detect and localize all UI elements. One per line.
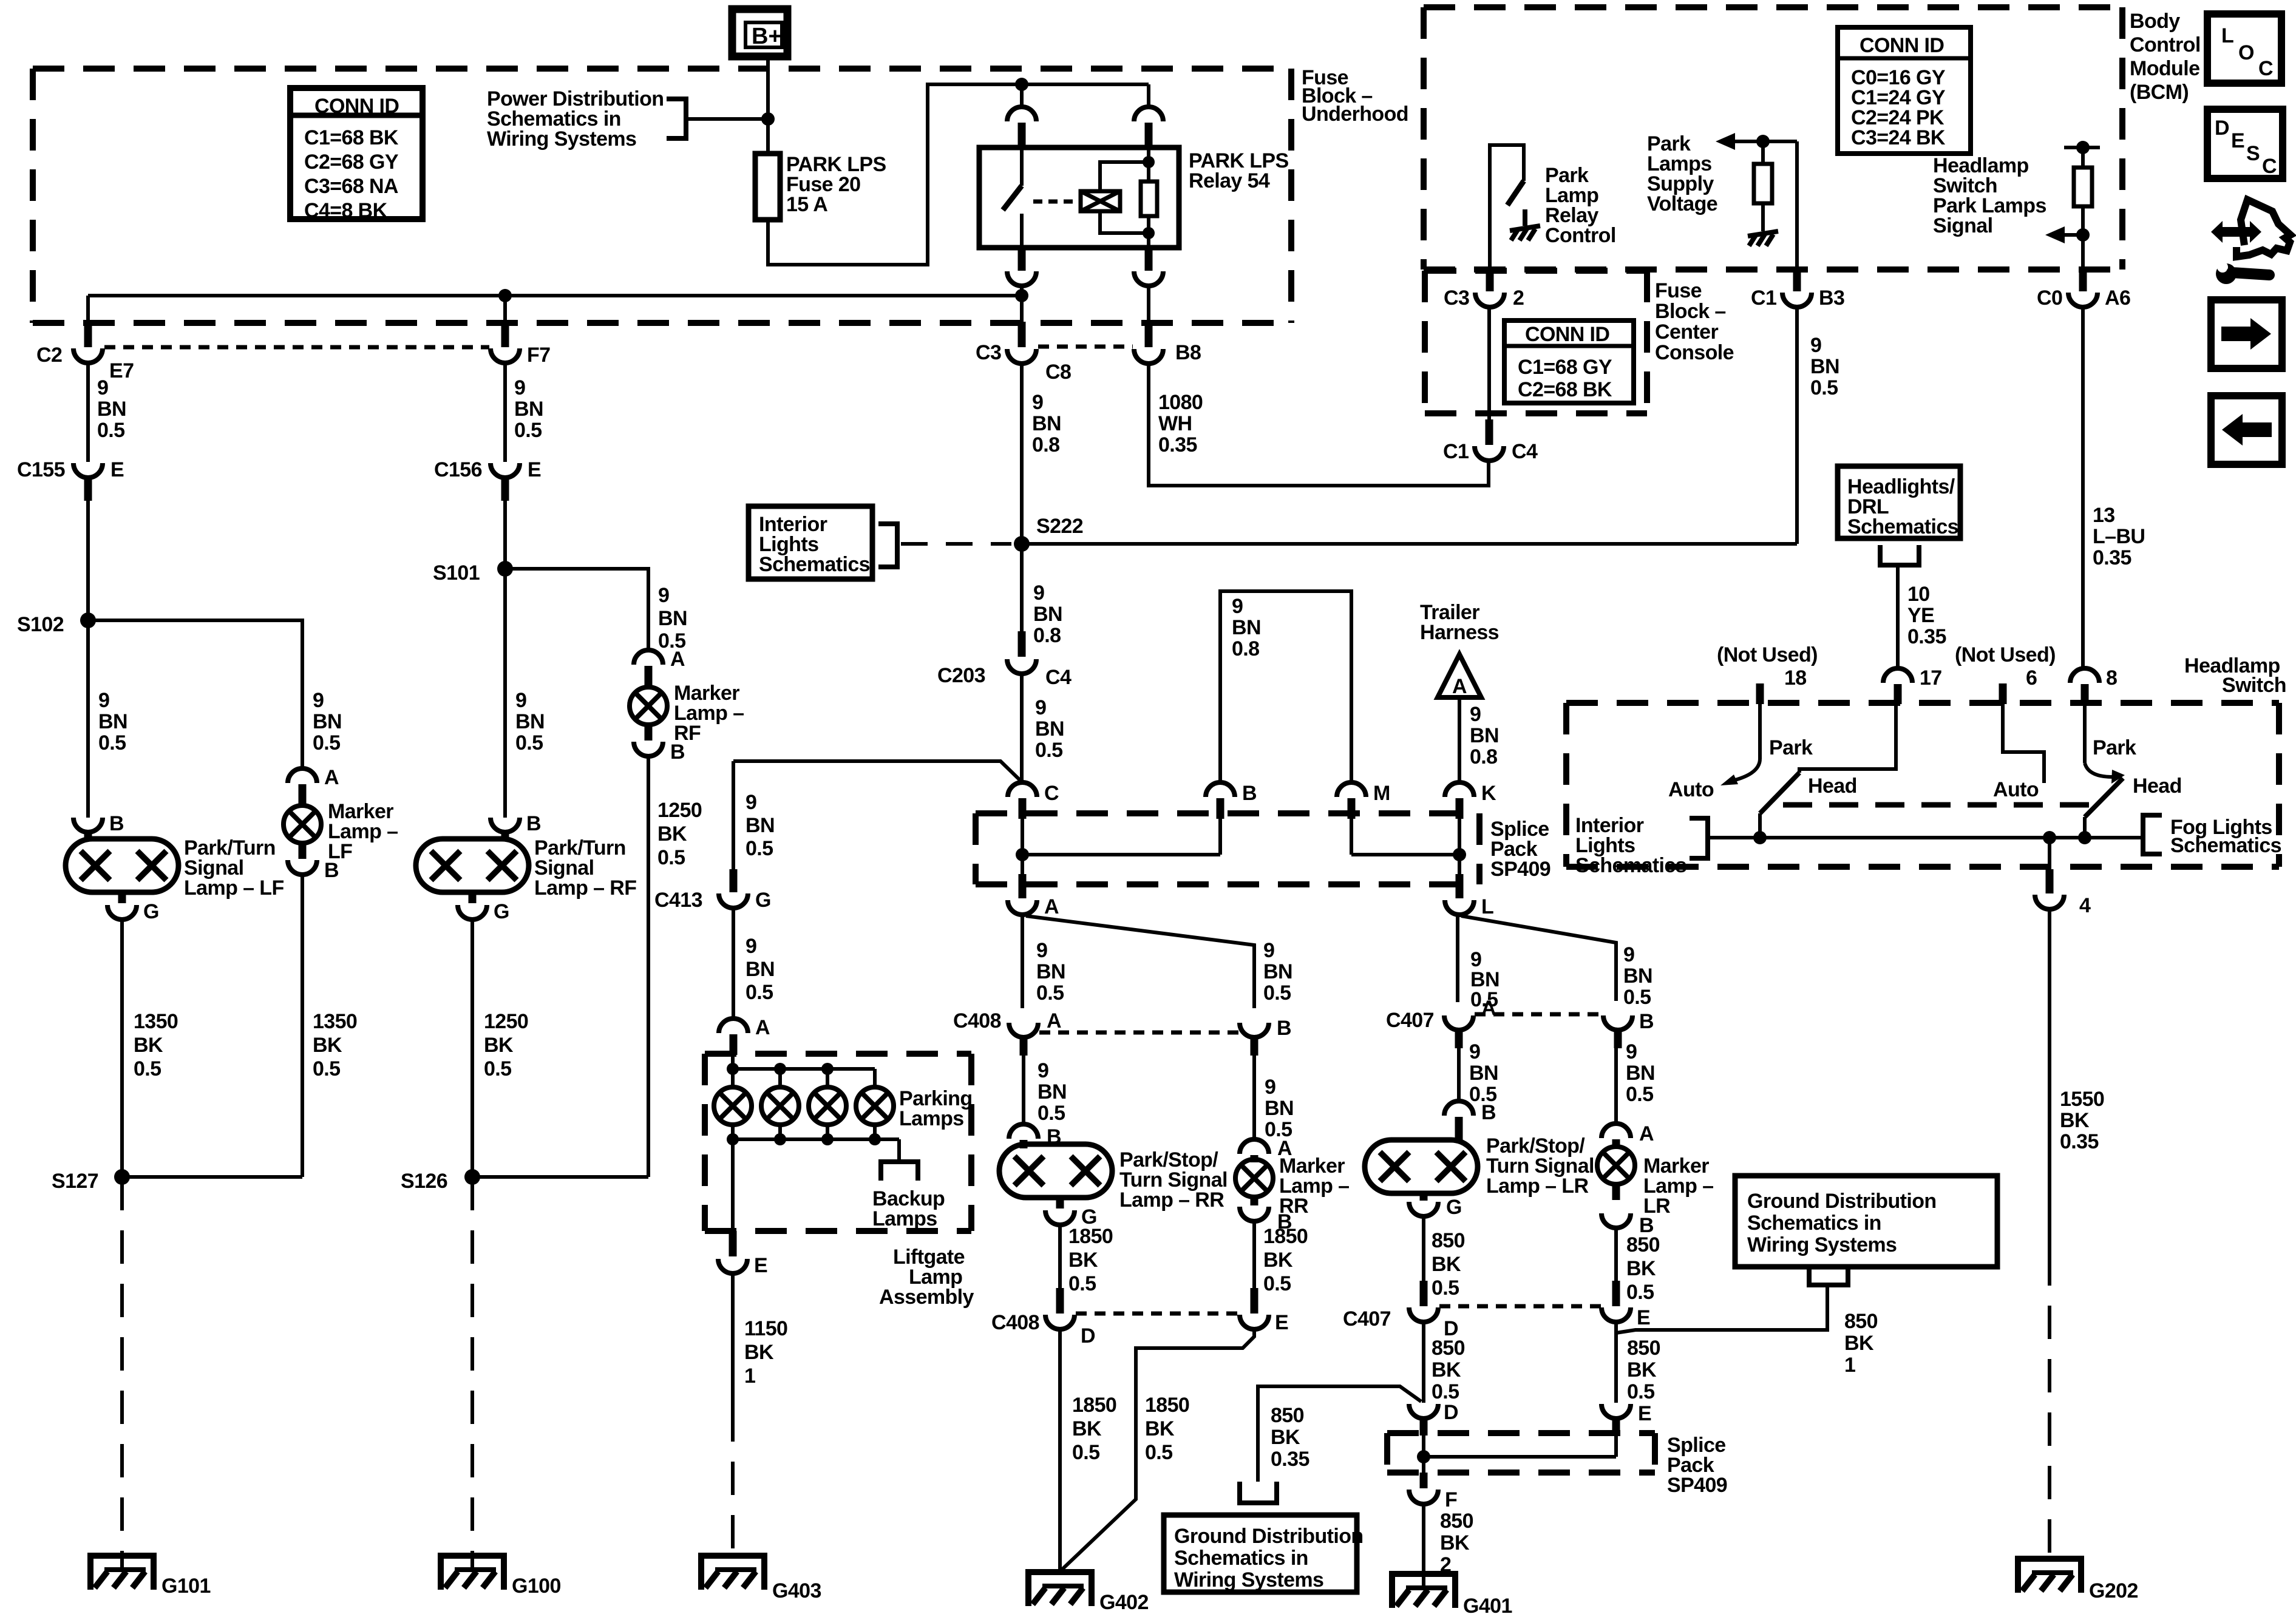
svg-text:C3=24 BK: C3=24 BK xyxy=(1851,126,1946,149)
svg-text:0.5: 0.5 xyxy=(1145,1441,1172,1464)
wire label 9 BN 0.5 (C408B down) xyxy=(1265,1076,1294,1141)
svg-text:BN: BN xyxy=(1232,616,1261,639)
label (Not Used) pin 18 xyxy=(1717,643,1818,666)
svg-text:G100: G100 xyxy=(512,1575,561,1598)
wire 10 YE down to pin 17 xyxy=(1896,585,1900,668)
splice 2 internal bus xyxy=(1424,1436,1616,1473)
wire label 1150 BK 1 xyxy=(744,1317,787,1388)
svg-text:C408: C408 xyxy=(991,1311,1039,1334)
connector B park/turn LF xyxy=(73,812,124,841)
svg-text:0.5: 0.5 xyxy=(1432,1276,1459,1300)
connector C156 pin E xyxy=(434,458,541,501)
svg-text:0.8: 0.8 xyxy=(1032,433,1059,456)
wire S222 to BCM B3 xyxy=(1022,542,1797,546)
svg-text:C3=68 NA: C3=68 NA xyxy=(304,175,398,198)
svg-text:13: 13 xyxy=(2093,504,2115,527)
node splice S127 xyxy=(52,1169,130,1193)
bulb Marker Lamp LF xyxy=(284,805,321,843)
svg-text:BK: BK xyxy=(313,1034,342,1057)
svg-text:Underhood: Underhood xyxy=(1302,103,1408,126)
svg-text:Lamp – RF: Lamp – RF xyxy=(534,876,636,900)
wire relay right pin down to B8 xyxy=(1147,286,1150,323)
connector C408 pin B xyxy=(1240,1017,1291,1056)
label Head switch 1 xyxy=(1808,775,1857,798)
wire label 9 BN 0.5 (to C407 A) xyxy=(1470,948,1500,1011)
relay actuator dashed link xyxy=(1033,200,1078,204)
wire label 9 BN 0.5 (F7-C156) xyxy=(514,376,543,442)
svg-text:BN: BN xyxy=(1036,960,1065,983)
svg-text:9: 9 xyxy=(1035,696,1046,719)
svg-text:BN: BN xyxy=(658,607,687,630)
svg-text:B8: B8 xyxy=(1175,341,1201,364)
svg-text:Wiring Systems: Wiring Systems xyxy=(1174,1568,1323,1592)
svg-text:Lamps: Lamps xyxy=(872,1207,937,1230)
pin 6 headlamp switch xyxy=(1999,666,2037,704)
svg-text:A: A xyxy=(1044,895,1059,918)
dotted connector line C2 to F7 xyxy=(104,345,489,350)
icon left arrow box xyxy=(2211,396,2282,464)
svg-text:A: A xyxy=(755,1016,770,1039)
Body Control Module BCM dashed box xyxy=(1424,7,2122,269)
svg-text:C2=68 BK: C2=68 BK xyxy=(1518,378,1612,401)
svg-text:BN: BN xyxy=(1626,1062,1655,1085)
svg-text:Schematics: Schematics xyxy=(2170,834,2281,857)
Interior Lights Schematics reference box xyxy=(749,506,872,579)
svg-text:C407: C407 xyxy=(1386,1009,1434,1032)
svg-text:850: 850 xyxy=(1271,1404,1304,1427)
connector C3 C8 below relay xyxy=(976,322,1071,384)
wire label 9 BN 0.5 (C2-C155) xyxy=(97,376,126,442)
pin 8 headlamp switch xyxy=(2070,666,2117,704)
svg-text:E: E xyxy=(2231,129,2244,152)
node junction on B+ feed xyxy=(761,112,775,126)
wire label 9 BN 0.5 (marker LF branch) xyxy=(313,689,342,754)
lamp Park/Stop/Turn Signal Lamp LR xyxy=(1365,1140,1478,1193)
svg-text:BK: BK xyxy=(134,1034,163,1057)
connector A marker lamp LF xyxy=(288,766,339,806)
wire marker RF down xyxy=(647,756,650,1177)
svg-text:Ground Distribution: Ground Distribution xyxy=(1747,1190,1937,1213)
svg-text:Wiring Systems: Wiring Systems xyxy=(487,127,636,151)
svg-text:S102: S102 xyxy=(17,613,64,636)
off-page bracket ground distribution (lower) xyxy=(1240,1482,1277,1503)
wire label 1850 BK 0.5 (RR G) xyxy=(1068,1225,1113,1295)
lamp Park/Turn Signal Lamp LF xyxy=(66,839,178,892)
connector D splice pack lower xyxy=(1409,1389,1458,1436)
svg-text:BK: BK xyxy=(1432,1358,1461,1381)
Splice Pack SP409 dashed box xyxy=(976,813,1479,884)
svg-text:A: A xyxy=(1639,1122,1654,1145)
svg-text:0.8: 0.8 xyxy=(1232,637,1259,660)
wire label 9 BN 0.5 (C407A down) xyxy=(1469,1040,1498,1106)
svg-text:C203: C203 xyxy=(937,664,985,687)
ground G202 xyxy=(2015,1556,2138,1602)
svg-text:0.5: 0.5 xyxy=(1036,981,1064,1005)
wire label 850 BK 0.35 xyxy=(1271,1404,1309,1471)
Ground Distribution Schematics in Wiring Systems box (upper) xyxy=(1735,1176,1997,1267)
svg-text:Head: Head xyxy=(1808,775,1857,798)
svg-text:G: G xyxy=(1446,1196,1462,1219)
wire relay left pin down through fuse box edge xyxy=(1020,286,1024,323)
svg-text:L–BU: L–BU xyxy=(2093,525,2145,548)
dotted connector line C408 A-B xyxy=(1039,1031,1238,1035)
wire pin4 down through box xyxy=(2048,838,2051,869)
svg-text:Lamp – RR: Lamp – RR xyxy=(1119,1188,1224,1212)
wire down to relay left pin xyxy=(1020,84,1024,107)
svg-text:Lamp – LF: Lamp – LF xyxy=(184,876,284,900)
bulb Marker Lamp LR xyxy=(1597,1147,1635,1184)
svg-text:B: B xyxy=(324,859,339,882)
node S-junction below relay xyxy=(1015,289,1028,302)
wire S127 to marker LF branch xyxy=(122,1175,302,1179)
label Park/Turn Signal Lamp RF xyxy=(534,836,636,900)
connector 4 below switch xyxy=(2035,869,2091,917)
connector G park/stop LR xyxy=(1409,1193,1462,1219)
svg-text:C2: C2 xyxy=(36,344,62,367)
pin 17 headlamp switch xyxy=(1883,666,1942,704)
node pin 4 junction xyxy=(2043,831,2056,844)
parking lamps bottom bus xyxy=(733,1125,899,1231)
svg-text:Lamp – LR: Lamp – LR xyxy=(1486,1175,1588,1198)
connector A marker lamp RF xyxy=(634,648,685,688)
svg-text:BK: BK xyxy=(744,1341,774,1364)
svg-text:BN: BN xyxy=(1263,960,1292,983)
connector B marker lamp LF xyxy=(288,843,339,882)
svg-text:1550: 1550 xyxy=(2060,1088,2104,1111)
svg-text:C1=68 GY: C1=68 GY xyxy=(1518,356,1612,379)
svg-text:Control: Control xyxy=(2130,33,2201,56)
svg-text:BK: BK xyxy=(1844,1332,1874,1355)
svg-text:9: 9 xyxy=(746,935,756,958)
svg-text:1: 1 xyxy=(1844,1354,1855,1377)
svg-text:BN: BN xyxy=(1810,355,1839,378)
node splice S101 xyxy=(433,561,513,585)
label (Not Used) pin 6 xyxy=(1955,643,2056,666)
svg-text:Fuse: Fuse xyxy=(1655,279,1702,302)
svg-text:BN: BN xyxy=(1623,964,1652,988)
svg-text:F: F xyxy=(1445,1488,1457,1511)
bulb parking lamp 1 xyxy=(714,1087,752,1125)
svg-text:18: 18 xyxy=(1784,666,1807,690)
node junction above relay left pin xyxy=(1015,78,1028,91)
svg-text:(BCM): (BCM) xyxy=(2130,81,2189,104)
connector B park/turn RF xyxy=(491,812,541,841)
svg-text:B: B xyxy=(1242,782,1257,805)
connector A marker RR xyxy=(1240,1137,1292,1162)
ground G101 xyxy=(87,1553,211,1598)
svg-text:10: 10 xyxy=(1907,583,1930,606)
switch 2 auto contact wire xyxy=(2003,704,2044,783)
ground G401 xyxy=(1389,1571,1512,1617)
wire label 1080 WH 0.35 (B8) xyxy=(1158,391,1203,456)
label Head switch 2 xyxy=(2133,775,2182,798)
dashed reference wire to S222 xyxy=(901,542,1011,546)
svg-text:E: E xyxy=(1638,1402,1651,1425)
wire label 9 BN 0.5 (C203-C) xyxy=(1035,696,1064,762)
svg-text:B: B xyxy=(670,741,685,764)
wire supply voltage to B3 xyxy=(1795,141,1799,272)
svg-text:E: E xyxy=(1637,1306,1650,1329)
svg-text:0.5: 0.5 xyxy=(134,1057,161,1080)
node splice C junction xyxy=(1016,848,1029,861)
svg-text:0.5: 0.5 xyxy=(1035,739,1062,762)
connector E liftgate xyxy=(718,1231,767,1277)
connector C0 pin A6 xyxy=(2037,272,2130,310)
connector C203 pin C4 xyxy=(937,631,1072,689)
svg-text:D: D xyxy=(2215,117,2229,140)
wire 850 BK 0.35 branch to splice D xyxy=(1258,1386,1421,1482)
wire down to C413 xyxy=(732,761,735,869)
wire label 9 BN 0.8 (C8) xyxy=(1032,391,1061,456)
label Headlamp Switch xyxy=(2184,654,2286,697)
svg-text:9: 9 xyxy=(1810,334,1821,357)
svg-text:0.5: 0.5 xyxy=(1038,1102,1065,1125)
svg-text:BK: BK xyxy=(1440,1531,1470,1554)
svg-text:BN: BN xyxy=(1469,1062,1498,1085)
wire label 9 BN 0.8 (K) xyxy=(1470,703,1499,768)
mini ground park lamp relay control xyxy=(1510,226,1540,240)
wire G LF down to S127 xyxy=(120,920,124,1177)
svg-text:BK: BK xyxy=(484,1034,514,1057)
trailer harness triangle A xyxy=(1438,654,1481,698)
svg-text:0.5: 0.5 xyxy=(514,419,542,442)
wire label 850 BK 1 xyxy=(1844,1310,1878,1377)
svg-text:Park: Park xyxy=(1769,736,1813,759)
svg-text:C3: C3 xyxy=(976,341,1001,364)
node coil top junction xyxy=(1143,156,1155,168)
wire label 1250 BK 0.5 (RF G) xyxy=(484,1010,528,1080)
svg-text:6: 6 xyxy=(2026,666,2037,690)
svg-text:Voltage: Voltage xyxy=(1647,192,1717,215)
svg-text:0.35: 0.35 xyxy=(1158,433,1197,456)
svg-text:Wiring Systems: Wiring Systems xyxy=(1747,1233,1897,1256)
wire A6 down to headlamp switch pin 8 xyxy=(2081,307,2085,668)
svg-text:0.5: 0.5 xyxy=(1810,376,1838,399)
svg-text:Center: Center xyxy=(1655,320,1718,344)
bulb Marker Lamp RF xyxy=(630,687,667,725)
svg-text:C1: C1 xyxy=(1751,286,1776,310)
svg-text:S127: S127 xyxy=(52,1170,98,1193)
wire pin 2 to C4 xyxy=(1487,307,1491,419)
wire label 1550 BK 0.35 xyxy=(2060,1088,2104,1153)
svg-text:0.5: 0.5 xyxy=(746,981,773,1004)
svg-text:B: B xyxy=(526,812,541,835)
wire F down to G401 xyxy=(1422,1504,1425,1586)
svg-text:850: 850 xyxy=(1626,1233,1660,1256)
svg-text:Body: Body xyxy=(2130,10,2180,33)
connector A splice pack bottom xyxy=(1008,874,1059,918)
wire triangle to K xyxy=(1458,697,1461,782)
relay resistor xyxy=(1141,147,1157,248)
svg-text:BN: BN xyxy=(1470,724,1499,747)
svg-text:0.5: 0.5 xyxy=(97,419,124,442)
wire C408 A to lamp RR B xyxy=(1022,1056,1025,1125)
dotted connector line C408 D-E xyxy=(1076,1312,1238,1316)
label Marker Lamp RF xyxy=(674,682,744,745)
node splice S126 xyxy=(401,1169,480,1193)
svg-text:BK: BK xyxy=(1263,1249,1293,1272)
wire label 1850 BK 0.5 (marker RR) xyxy=(1263,1225,1308,1295)
svg-text:C: C xyxy=(2258,57,2273,80)
wire A splice down to C408 A xyxy=(1021,915,1024,1008)
connector G park/turn RF xyxy=(458,892,509,923)
svg-text:9: 9 xyxy=(1469,1040,1480,1063)
svg-text:BN: BN xyxy=(515,710,545,733)
node splice S102 xyxy=(17,612,96,636)
svg-text:Harness: Harness xyxy=(1420,621,1499,644)
wire label 13 L-BU 0.35 xyxy=(2093,504,2145,569)
label Park Lamp Relay Control xyxy=(1545,164,1616,247)
bulb parking lamp 3 xyxy=(809,1087,846,1125)
svg-text:BN: BN xyxy=(1038,1080,1067,1103)
connector E splice pack lower xyxy=(1601,1389,1651,1436)
svg-text:BK: BK xyxy=(1145,1417,1175,1440)
svg-text:Schematics: Schematics xyxy=(1847,515,1958,538)
connector K splice pack xyxy=(1445,782,1496,819)
svg-text:Assembly: Assembly xyxy=(879,1286,974,1309)
connector C407 pin B xyxy=(1603,1010,1654,1048)
wire label 9 BN 0.5 (marker RF branch) xyxy=(658,584,687,653)
splice internal bus C-B xyxy=(1022,819,1220,874)
relay switch contact xyxy=(1003,147,1022,248)
node bus dots bottom xyxy=(727,1133,881,1145)
wire fuse to relay feed xyxy=(768,84,1149,265)
wire C2 to C155 xyxy=(86,363,90,462)
svg-text:E: E xyxy=(754,1254,767,1277)
connector F splice pack lower xyxy=(1409,1473,1457,1511)
Park Lamps Supply Voltage circuit xyxy=(1716,133,1797,231)
svg-text:C156: C156 xyxy=(434,458,482,481)
svg-text:9: 9 xyxy=(658,584,669,607)
wire C413 to liftgate A xyxy=(732,908,735,1019)
svg-text:S222: S222 xyxy=(1036,515,1083,538)
wire C155 to S102 xyxy=(86,501,90,620)
wire label 9 BN 0.5 (C408A down) xyxy=(1038,1059,1067,1125)
svg-text:YE: YE xyxy=(1907,604,1934,627)
label Park/Stop/Turn Signal Lamp LR xyxy=(1486,1134,1594,1198)
svg-text:0.8: 0.8 xyxy=(1033,624,1061,647)
svg-text:850: 850 xyxy=(1432,1229,1465,1252)
svg-text:B: B xyxy=(1481,1101,1496,1124)
svg-text:BN: BN xyxy=(313,710,342,733)
svg-text:C4: C4 xyxy=(1512,440,1538,463)
relay coil xyxy=(1081,162,1149,233)
wire label 9 BN 0.5 (to C408 A) xyxy=(1036,939,1065,1005)
svg-text:C408: C408 xyxy=(953,1009,1001,1032)
svg-text:Control: Control xyxy=(1545,224,1616,247)
svg-text:BN: BN xyxy=(97,398,126,421)
off-page bracket Power Distribution xyxy=(667,99,686,138)
svg-text:B: B xyxy=(1639,1010,1654,1033)
splice internal bus M-K xyxy=(1351,819,1459,874)
node splice K junction xyxy=(1453,848,1466,861)
svg-text:9: 9 xyxy=(1032,391,1043,414)
wire B8 down right and up to C4 xyxy=(1149,364,1489,486)
svg-text:0.5: 0.5 xyxy=(1623,986,1651,1009)
node splice S222 xyxy=(1014,515,1083,552)
svg-text:E7: E7 xyxy=(109,359,134,382)
dotted connector line C407 D-E xyxy=(1439,1304,1601,1309)
svg-text:9: 9 xyxy=(514,376,525,399)
svg-text:(Not Used): (Not Used) xyxy=(1955,643,2056,666)
svg-text:C2=68 GY: C2=68 GY xyxy=(304,151,399,174)
svg-text:BN: BN xyxy=(746,958,775,981)
svg-text:BK: BK xyxy=(1627,1358,1657,1381)
svg-text:2: 2 xyxy=(1513,286,1524,310)
svg-text:0.35: 0.35 xyxy=(1907,625,1946,648)
label Parking Lamps xyxy=(899,1087,973,1130)
Headlamp Switch dashed box xyxy=(1566,703,2279,867)
connector B splice pack xyxy=(1206,782,1257,819)
svg-text:17: 17 xyxy=(1920,666,1942,690)
svg-text:Ground Distribution: Ground Distribution xyxy=(1174,1525,1364,1548)
node signal arrow junction xyxy=(2076,228,2090,242)
relay left top pin connector xyxy=(1007,107,1036,149)
svg-text:Relay 54: Relay 54 xyxy=(1189,169,1270,192)
icon wolf head with arrows and wrench xyxy=(2211,200,2291,284)
backup lamps bracket xyxy=(881,1162,918,1181)
connector B park/stop LR xyxy=(1444,1101,1496,1140)
svg-text:Auto: Auto xyxy=(1993,778,2039,801)
svg-text:G: G xyxy=(143,900,159,923)
connector L splice pack bottom xyxy=(1445,874,1493,918)
svg-text:BK: BK xyxy=(657,822,687,846)
svg-text:C407: C407 xyxy=(1343,1307,1391,1331)
label Liftgate Lamp Assembly xyxy=(879,1246,974,1309)
label Auto switch 2 xyxy=(1993,778,2039,801)
wire bracket to B+ feed xyxy=(686,117,768,121)
svg-text:BK: BK xyxy=(1432,1253,1461,1276)
wire down to relay right pin xyxy=(1147,84,1150,107)
wire C156 to S101 xyxy=(503,501,507,569)
svg-text:E: E xyxy=(528,458,541,481)
svg-text:1: 1 xyxy=(744,1364,755,1388)
svg-text:Schematics: Schematics xyxy=(1575,854,1686,877)
label Park/Turn Signal Lamp LF xyxy=(184,836,284,900)
svg-text:BK: BK xyxy=(1072,1417,1102,1440)
svg-text:15 A: 15 A xyxy=(786,193,827,216)
ground G402 xyxy=(1025,1569,1149,1614)
label Power Distribution Schematics in Wiring Systems xyxy=(487,87,664,151)
wire S102 down to lamp B xyxy=(86,620,90,818)
svg-text:C1: C1 xyxy=(1443,440,1469,463)
wire C407 D down to splice D xyxy=(1422,1322,1425,1389)
connector B8 xyxy=(1134,322,1201,364)
svg-text:0.8: 0.8 xyxy=(1470,745,1497,768)
svg-text:S: S xyxy=(2246,142,2260,165)
svg-text:Schematics: Schematics xyxy=(759,553,870,576)
wire C408 B to marker RR A xyxy=(1252,1056,1256,1141)
label Fuse Block - Underhood xyxy=(1302,66,1408,126)
svg-text:BK: BK xyxy=(1271,1426,1300,1449)
connector C3 pin 2 xyxy=(1444,272,1524,310)
wire C8 down to S222 xyxy=(1020,364,1024,631)
connector C407 pin E (lower) xyxy=(1601,1281,1650,1329)
svg-text:0.5: 0.5 xyxy=(1432,1380,1459,1403)
wire C413 column label 9 BN 0.5 xyxy=(746,791,775,860)
CONN ID table (underhood) xyxy=(290,88,423,222)
svg-text:Signal: Signal xyxy=(1933,214,1992,237)
connector C408 pin D (lower) xyxy=(991,1288,1095,1347)
svg-text:Schematics in: Schematics in xyxy=(1174,1547,1308,1570)
Fuse Block Center Console dashed box xyxy=(1425,271,1647,413)
wire C408 D down to G402 xyxy=(1058,1329,1062,1572)
main bus wire y487 xyxy=(88,294,1022,297)
parking lamps top bus xyxy=(733,1055,875,1087)
wire label 9 BN 0.5 (to C407 B) xyxy=(1623,943,1652,1009)
label Body Control Module (BCM) xyxy=(2130,10,2201,104)
switch coupling dashed line xyxy=(1783,802,2090,808)
